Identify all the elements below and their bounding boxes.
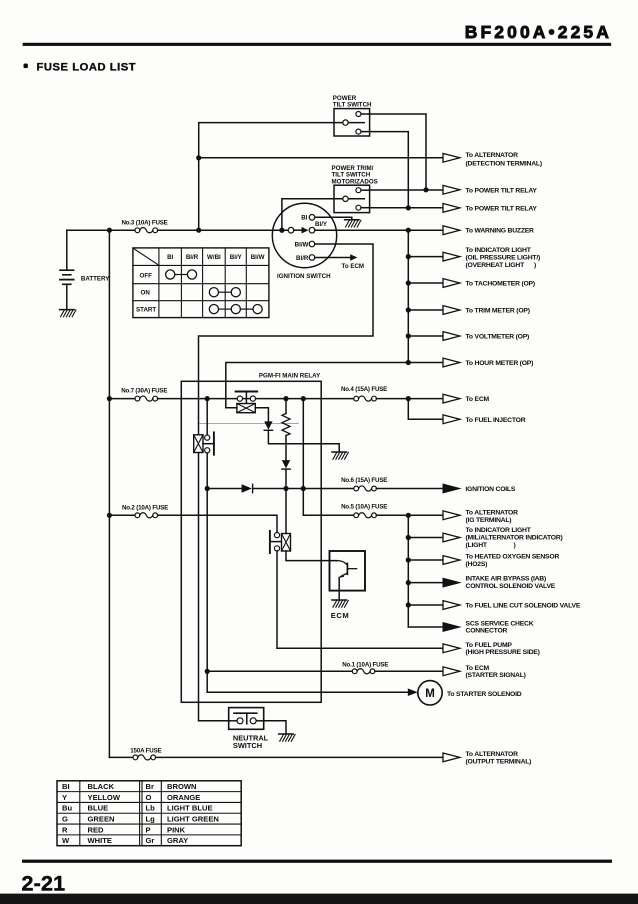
wire main relay supply bbox=[158, 398, 354, 400]
svg-text:M: M bbox=[425, 688, 435, 700]
wire motorizados up-throw to power tilt relay bbox=[370, 189, 443, 191]
fuse No.5 (10A) bbox=[341, 504, 387, 518]
node tilt switch feed bbox=[196, 228, 201, 233]
node battery / No.3 fuse junction bbox=[107, 228, 112, 233]
arrow to tachometer bbox=[443, 279, 460, 288]
svg-text:2-21: 2-21 bbox=[22, 872, 66, 896]
fuse No.2 (10A) bbox=[109, 505, 168, 518]
arrow intake air bypass solenoid bbox=[443, 578, 460, 587]
svg-text:To INDICATOR LIGHT: To INDICATOR LIGHT bbox=[466, 527, 532, 534]
svg-text:INTAKE AIR BYPASS (IAB): INTAKE AIR BYPASS (IAB) bbox=[466, 576, 547, 583]
svg-text:To ECM: To ECM bbox=[466, 396, 490, 403]
arrow to fuel line cut solenoid valve bbox=[443, 601, 460, 610]
svg-text:LIGHT BLUE: LIGHT BLUE bbox=[167, 804, 213, 813]
svg-text:GREEN: GREEN bbox=[88, 815, 115, 824]
arrow to alternator (IG terminal) bbox=[443, 511, 460, 520]
svg-text:Y: Y bbox=[62, 793, 67, 802]
node motorizados feed bbox=[279, 228, 284, 233]
wire meter bus bbox=[407, 230, 409, 362]
svg-text:P: P bbox=[146, 825, 151, 834]
wire BI/Y output to warning buzzer bbox=[315, 229, 443, 231]
svg-text:BROWN: BROWN bbox=[167, 782, 197, 791]
svg-text:BF200A•225A: BF200A•225A bbox=[465, 22, 612, 42]
relay 2 contacts bbox=[203, 399, 214, 489]
svg-text:To INDICATOR LIGHT: To INDICATOR LIGHT bbox=[466, 247, 532, 254]
svg-text:WHITE: WHITE bbox=[88, 836, 112, 845]
terminal circle ignition feed bbox=[288, 227, 294, 233]
arrow to warning buzzer bbox=[443, 226, 460, 235]
svg-text:(LIGHT ): (LIGHT ) bbox=[466, 542, 516, 549]
svg-text:No.4 (15A) FUSE: No.4 (15A) FUSE bbox=[341, 386, 387, 393]
fuse 150A bbox=[109, 747, 161, 760]
ignition switch bbox=[272, 203, 336, 280]
wire to heated oxygen sensor bbox=[408, 559, 443, 561]
diode D3 bbox=[242, 484, 252, 492]
svg-text:BI/W: BI/W bbox=[295, 241, 309, 248]
node relay output riser junction bbox=[301, 396, 306, 401]
svg-text:To VOLTMETER (OP): To VOLTMETER (OP) bbox=[466, 334, 530, 341]
svg-text:ECM: ECM bbox=[331, 611, 349, 620]
arrow into starter motor bbox=[408, 688, 418, 696]
wire ECM accessory bus bbox=[407, 515, 409, 627]
node meter bus top bbox=[406, 228, 411, 233]
svg-text:To POWER TILT RELAY: To POWER TILT RELAY bbox=[466, 205, 538, 212]
svg-text:LIGHT GREEN: LIGHT GREEN bbox=[167, 815, 219, 824]
svg-text:BI/W: BI/W bbox=[251, 254, 265, 261]
svg-text:To POWER TILT RELAY: To POWER TILT RELAY bbox=[466, 187, 538, 194]
svg-text:(HIGH PRESSURE SIDE): (HIGH PRESSURE SIDE) bbox=[466, 649, 540, 656]
wire relay 3 coil to ECM transistor bbox=[286, 551, 337, 561]
ECM box bbox=[330, 551, 366, 591]
diode D2 bbox=[282, 460, 290, 468]
svg-text:No.7 (30A) FUSE: No.7 (30A) FUSE bbox=[121, 388, 167, 395]
terminal BI/W bbox=[309, 241, 315, 247]
wire relay output riser bbox=[303, 399, 354, 516]
svg-text:To ALTERNATOR: To ALTERNATOR bbox=[466, 510, 519, 517]
wire to hour meter bbox=[408, 362, 443, 364]
svg-text:SWITCH: SWITCH bbox=[233, 741, 262, 750]
svg-text:IGNITION COILS: IGNITION COILS bbox=[465, 486, 515, 493]
svg-text:Lb: Lb bbox=[146, 804, 156, 813]
svg-text:No.1 (10A) FUSE: No.1 (10A) FUSE bbox=[342, 662, 388, 669]
terminal BI bbox=[309, 215, 315, 221]
wire diode 2 to ignition coil run bbox=[285, 469, 287, 488]
svg-text:No.3 (10A) FUSE: No.3 (10A) FUSE bbox=[122, 220, 168, 227]
node tachometer branch bbox=[406, 280, 411, 285]
node ECM / fuel injector junction bbox=[406, 396, 411, 401]
svg-text:No.5 (10A) FUSE: No.5 (10A) FUSE bbox=[341, 504, 387, 511]
wire 150A fuse to alternator output bbox=[156, 756, 443, 758]
node ECM bus top bbox=[406, 513, 411, 518]
svg-text:No.6 (15A) FUSE: No.6 (15A) FUSE bbox=[341, 477, 387, 484]
arrow to power tilt relay 2 bbox=[443, 204, 460, 213]
node hour meter / relay coil branch bbox=[406, 360, 411, 365]
svg-text:(STARTER SIGNAL): (STARTER SIGNAL) bbox=[466, 672, 526, 679]
svg-text:To STARTER SOLENOID: To STARTER SOLENOID bbox=[447, 691, 522, 698]
power tilt switch bbox=[333, 95, 372, 136]
ground ECM bbox=[332, 599, 347, 601]
svg-text:(MIL/ALTERNATOR INDICATOR): (MIL/ALTERNATOR INDICATOR) bbox=[466, 535, 563, 542]
svg-text:YELLOW: YELLOW bbox=[88, 793, 121, 802]
svg-text:GRAY: GRAY bbox=[167, 836, 188, 845]
ground ignition switch BI bbox=[345, 219, 360, 221]
arrow to hour meter bbox=[443, 358, 460, 367]
neutral switch bbox=[229, 708, 269, 751]
node relay 2 top contact junction bbox=[205, 396, 210, 401]
wire motorizados down-throw to power tilt relay bbox=[370, 207, 443, 209]
svg-text:BI/Y: BI/Y bbox=[315, 221, 328, 228]
svg-text:BI/Y: BI/Y bbox=[230, 254, 243, 261]
svg-text:To TACHOMETER (OP): To TACHOMETER (OP) bbox=[466, 281, 535, 288]
svg-text:To ALTERNATOR: To ALTERNATOR bbox=[466, 152, 519, 159]
arrow to voltmeter bbox=[443, 332, 460, 341]
relay 1 (main relay) contacts bbox=[236, 392, 258, 404]
node diode 2 junction bbox=[283, 486, 288, 491]
arrow to heated oxygen sensor bbox=[443, 556, 460, 565]
svg-text:OFF: OFF bbox=[140, 272, 153, 279]
wire battery to left bus bbox=[67, 229, 110, 231]
battery bbox=[60, 230, 111, 317]
wire tilt switch down-throw to tilt relay 2 bbox=[370, 132, 409, 208]
wire No.4 fuse to ECM bbox=[376, 398, 443, 400]
svg-text:To HEATED OXYGEN SENSOR: To HEATED OXYGEN SENSOR bbox=[466, 554, 560, 561]
wire to alternator detection terminal bbox=[199, 157, 443, 159]
svg-text:150A FUSE: 150A FUSE bbox=[130, 747, 161, 754]
node tilt relay 1 junction bbox=[423, 187, 428, 192]
wire riser to power tilt switch common bbox=[199, 123, 343, 231]
fuse No.4 (15A) bbox=[341, 386, 387, 401]
node No.2 fuse junction bbox=[107, 513, 112, 518]
node resistor top junction bbox=[283, 396, 288, 401]
wire left supply bus bbox=[108, 230, 110, 757]
svg-text:To FUEL LINE CUT SOLENOID VALV: To FUEL LINE CUT SOLENOID VALVE bbox=[466, 603, 581, 610]
svg-text:To ECM: To ECM bbox=[466, 665, 490, 672]
resistor R1 bbox=[285, 399, 287, 414]
node ECM starter signal branch bbox=[205, 669, 210, 674]
node starter run junction bbox=[205, 486, 210, 491]
wire branch to fuel injector bbox=[408, 399, 443, 420]
svg-text:To TRIM METER (OP): To TRIM METER (OP) bbox=[466, 308, 530, 315]
wire relay 1 coil to diode 1 bbox=[255, 408, 268, 422]
faint fold line bbox=[200, 423, 299, 425]
node MIL indicator branch bbox=[406, 535, 411, 540]
arrow to alternator (detection terminal) bbox=[443, 153, 460, 162]
svg-text:BI/R: BI/R bbox=[186, 254, 199, 261]
wire to No.1 fuse bbox=[207, 670, 352, 672]
wire to MIL indicator bbox=[408, 537, 443, 539]
svg-text:(OUTPUT TERMINAL): (OUTPUT TERMINAL) bbox=[466, 758, 532, 765]
wire tilt switch up-throw to tilt relay 1 bbox=[370, 114, 426, 190]
wire ignition BI terminal to ground bbox=[315, 217, 352, 219]
svg-text:G: G bbox=[62, 815, 68, 824]
fuse No.1 (10A) bbox=[342, 662, 388, 674]
arrow to indicator light (oil pressure/overheat) bbox=[443, 252, 460, 261]
wire to SCS connector bbox=[408, 626, 443, 628]
page header rule bbox=[23, 43, 612, 46]
node ignition feed terminal junction bbox=[279, 228, 284, 233]
arrow ignition coils bbox=[443, 484, 460, 493]
svg-text:(IG TERMINAL): (IG TERMINAL) bbox=[466, 517, 512, 524]
relay 3 (fuel pump relay) contacts bbox=[270, 531, 282, 553]
svg-text:SCS SERVICE CHECK: SCS SERVICE CHECK bbox=[466, 620, 534, 627]
node HO2S branch bbox=[406, 557, 411, 562]
svg-text:CONNECTOR: CONNECTOR bbox=[466, 628, 508, 635]
arrow to trim meter bbox=[443, 306, 460, 315]
svg-text:No.2 (10A) FUSE: No.2 (10A) FUSE bbox=[122, 505, 168, 512]
svg-text:BLUE: BLUE bbox=[88, 804, 109, 813]
svg-text:Bu: Bu bbox=[62, 804, 72, 813]
wire BI/R to ECM with arrow bbox=[315, 257, 350, 259]
wire No.1 fuse to ECM starter signal bbox=[375, 670, 443, 672]
wire colour code table bbox=[57, 781, 241, 846]
node trim meter branch bbox=[406, 307, 411, 312]
footer rule bbox=[22, 860, 612, 863]
svg-text:BI: BI bbox=[167, 254, 173, 261]
wire to voltmeter bbox=[408, 335, 443, 337]
wire to starter solenoid bbox=[207, 691, 407, 693]
wire neutral switch to ground bbox=[264, 721, 286, 734]
wire BI/W start feed bbox=[199, 244, 374, 435]
svg-text:W/BI: W/BI bbox=[207, 254, 221, 261]
svg-text:ORANGE: ORANGE bbox=[167, 793, 200, 802]
node alternator detection branch bbox=[196, 155, 201, 160]
svg-text:IGNITION SWITCH: IGNITION SWITCH bbox=[277, 273, 331, 280]
svg-text:FUSE LOAD LIST: FUSE LOAD LIST bbox=[37, 61, 137, 73]
svg-text:To FUEL PUMP: To FUEL PUMP bbox=[466, 642, 513, 649]
svg-text:W: W bbox=[62, 836, 70, 845]
wire starter feed riser bbox=[206, 489, 208, 693]
wire to tachometer bbox=[408, 282, 443, 284]
svg-text:(HO2S): (HO2S) bbox=[466, 561, 488, 568]
wire diode 1 to ground run bbox=[268, 430, 339, 451]
svg-text:O: O bbox=[146, 793, 152, 802]
svg-text:To ECM: To ECM bbox=[342, 263, 365, 270]
node IAB branch bbox=[406, 580, 411, 585]
wire to fuel line cut solenoid bbox=[408, 604, 443, 606]
arrow to indicator light (MIL) bbox=[443, 533, 460, 542]
svg-text:To WARNING BUZZER: To WARNING BUZZER bbox=[466, 228, 535, 235]
fuse No.3 (10A) bbox=[109, 220, 167, 233]
arrow into BI/Y terminal bbox=[294, 229, 302, 231]
arrow to fuel injector bbox=[443, 415, 460, 424]
ground relay unit bbox=[332, 451, 347, 453]
svg-text:BI: BI bbox=[301, 215, 307, 222]
wire No.5 fuse to alternator IG bbox=[376, 514, 443, 516]
wire No.6 fuse to ignition coils bbox=[376, 488, 443, 490]
svg-text:CONTROL SOLENOID VALVE: CONTROL SOLENOID VALVE bbox=[466, 583, 556, 590]
fuse No.6 (15A) bbox=[341, 477, 387, 491]
fuse No.7 (30A) bbox=[109, 388, 167, 402]
svg-text:R: R bbox=[62, 825, 68, 834]
svg-text:Lg: Lg bbox=[146, 815, 156, 824]
svg-text:PINK: PINK bbox=[167, 825, 186, 834]
node relay output / ignition coil junction bbox=[301, 486, 306, 491]
arrow to ECM starter signal bbox=[443, 667, 460, 676]
svg-text:RED: RED bbox=[88, 825, 105, 834]
wire relay 3 contact to fuel pump bbox=[277, 551, 443, 648]
wire ignition coil run bbox=[207, 488, 354, 490]
svg-text:ON: ON bbox=[141, 290, 151, 297]
svg-text:BATTERY: BATTERY bbox=[81, 275, 110, 282]
svg-text:BLACK: BLACK bbox=[88, 782, 115, 791]
diode D1 bbox=[264, 421, 272, 429]
svg-text:BI/R: BI/R bbox=[296, 255, 309, 262]
arrow to fuel pump bbox=[443, 644, 460, 653]
svg-text:(OVERHEAT LIGHT ): (OVERHEAT LIGHT ) bbox=[466, 262, 537, 269]
svg-text:MOTORIZADOS: MOTORIZADOS bbox=[332, 178, 378, 185]
svg-text:To ALTERNATOR: To ALTERNATOR bbox=[466, 751, 519, 758]
relay 2 (starter relay) coil bbox=[194, 435, 203, 453]
footer black bar bbox=[0, 894, 638, 904]
wire relay 3 coil top feed bbox=[285, 489, 287, 534]
wire No.3 fuse to ignition switch BI/Y bbox=[158, 229, 289, 231]
node No.7 fuse junction bbox=[107, 396, 112, 401]
arrow SCS service check connector bbox=[443, 623, 460, 632]
wire to trim meter bbox=[408, 309, 443, 311]
wire to indicator light bbox=[408, 256, 443, 258]
svg-text:PGM-FI MAIN RELAY: PGM-FI MAIN RELAY bbox=[259, 372, 321, 379]
svg-text:Br: Br bbox=[146, 782, 154, 791]
starter motor M bbox=[418, 681, 442, 705]
arrow to ECM bbox=[443, 394, 460, 403]
node indicator light branch bbox=[406, 254, 411, 259]
svg-text:To FUEL INJECTOR: To FUEL INJECTOR bbox=[466, 417, 526, 424]
wire to IAB solenoid bbox=[408, 582, 443, 584]
relay 1 coil bbox=[237, 404, 255, 413]
transistor Q1 inside ECM bbox=[337, 561, 357, 600]
svg-text:(OIL PRESSURE LIGHT/): (OIL PRESSURE LIGHT/) bbox=[466, 255, 541, 262]
svg-text:Gr: Gr bbox=[146, 836, 155, 845]
node fuel line cut branch bbox=[406, 602, 411, 607]
svg-text:START: START bbox=[136, 307, 156, 314]
svg-text:TILT SWITCH: TILT SWITCH bbox=[333, 102, 372, 109]
section title bullet bbox=[24, 64, 28, 69]
node tilt relay 2 junction bbox=[406, 205, 411, 210]
terminal BI/R bbox=[309, 255, 315, 261]
wire riser to power trim/tilt switch common bbox=[282, 199, 343, 230]
ground neutral switch bbox=[279, 733, 294, 735]
relay 3 coil bbox=[282, 534, 291, 552]
svg-text:To HOUR METER (OP): To HOUR METER (OP) bbox=[466, 360, 534, 367]
svg-text:(DETECTION TERMINAL): (DETECTION TERMINAL) bbox=[466, 160, 542, 167]
wire No.2 fuse to relay 3 contact bbox=[158, 515, 277, 532]
svg-text:BI: BI bbox=[62, 782, 70, 791]
arrow to alternator (output terminal) bbox=[443, 753, 460, 762]
wire ignition-on feed to main relay coil bbox=[226, 363, 408, 408]
arrow to power tilt relay 1 bbox=[443, 185, 460, 194]
ignition switch position table bbox=[133, 248, 269, 318]
node voltmeter branch bbox=[406, 333, 411, 338]
terminal BI/Y bbox=[309, 227, 315, 233]
power trim/tilt switch motorizados bbox=[332, 165, 378, 213]
